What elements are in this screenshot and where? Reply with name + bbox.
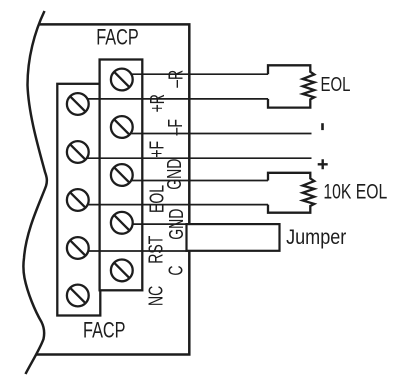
node label +R [146,94,169,112]
node label EOL [145,185,168,213]
node label RST [144,235,167,263]
screw terminal TB1-3 [67,189,89,211]
wire +F [78,157,312,159]
node label -R [164,70,187,88]
wire GND (rst) [122,223,190,225]
screw terminal TB2-1 [111,69,133,91]
svg-text:C: C [164,266,187,276]
resistor 10K EOL (bracket leads + zigzag) [268,173,314,213]
node label GND (rst) [164,209,187,240]
node label GND (zone) [163,159,186,190]
svg-text:–F: –F [164,119,187,135]
svg-text:RST: RST [144,235,167,263]
screw terminal TB1-1 [67,93,89,115]
svg-text:NC: NC [144,286,167,306]
screw terminal TB2-4 [111,212,133,234]
screw terminal TB2-3 [111,164,133,186]
terminal strip TB2 (inner right block) [100,60,143,291]
screw terminal TB2-2 [111,116,133,138]
wire -R [122,73,268,75]
torn paper edge (wavy left border) [23,11,47,374]
node label NC [144,286,167,306]
svg-text:Jumper: Jumper [286,226,347,250]
screw terminal TB2-5 [111,260,133,282]
node label +F [145,141,168,158]
terminal label + (plus) [318,159,328,169]
terminal label - (minus, rotated) [321,123,324,130]
jumper J1 (rectangle) [187,224,280,251]
wire EOL [78,204,268,206]
resistor EOL (bracket leads + zigzag) [268,65,314,107]
svg-text:–R: –R [164,70,187,88]
wire GND (zone) [122,180,268,182]
svg-text:+R: +R [146,94,169,112]
svg-text:GND: GND [164,209,187,240]
node label -F [164,119,187,135]
screw terminal TB1-5 [67,285,89,307]
svg-text:+F: +F [145,141,168,158]
svg-text:EOL: EOL [321,73,351,96]
svg-text:FACP: FACP [83,318,126,343]
svg-text:10K EOL: 10K EOL [323,179,387,203]
wire RST [78,250,190,252]
node label C [164,266,187,276]
wire -F [122,133,312,135]
svg-text:FACP: FACP [96,25,139,50]
screw terminal TB1-4 [67,237,89,259]
wire +R [78,98,268,100]
screw terminal TB1-2 [67,141,89,163]
FACP enclosure box [37,24,190,354]
terminal strip TB1 (outer left block) [57,84,100,316]
